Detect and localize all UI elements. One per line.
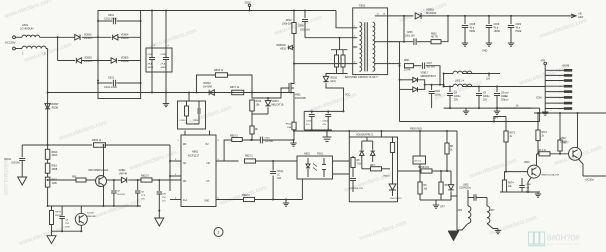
svg-text:L806: L806 — [457, 210, 463, 212]
svg-text:R809 1k: R809 1k — [92, 139, 102, 142]
svg-text:1kV: 1kV — [162, 200, 166, 202]
svg-text:CD11-1/400: CD11-1/400 — [104, 86, 117, 89]
svg-text:R+1: R+1 — [183, 200, 188, 202]
svg-text:GND: GND — [482, 50, 488, 53]
svg-text:C813: C813 — [306, 121, 312, 123]
svg-text:L807: L807 — [490, 210, 496, 212]
svg-text:1000u: 1000u — [483, 96, 490, 98]
svg-text:VD813: VD813 — [272, 101, 280, 103]
svg-text:R8?B: R8?B — [55, 212, 61, 214]
svg-text:V804 MMBT2222A: V804 MMBT2222A — [88, 169, 109, 172]
svg-text:R871: R871 — [542, 132, 548, 134]
svg-text:GND: GND — [204, 201, 209, 203]
svg-text:COM: COM — [536, 98, 541, 100]
svg-text:100u 2kV: 100u 2kV — [300, 29, 311, 32]
svg-text:P62E: P62E — [516, 30, 522, 33]
svg-text:elecfans.com: elecfans.com — [2, 160, 8, 195]
svg-text:100/1kV: 100/1kV — [11, 161, 20, 164]
svg-text:N802: N802 — [304, 153, 310, 156]
svg-text:2R0A: 2R0A — [52, 154, 58, 157]
svg-text:MMB10C: MMB10C — [276, 45, 286, 47]
svg-text:D4NC60B: D4NC60B — [295, 97, 306, 100]
svg-text:1R0 PLATO: 1R0 PLATO — [390, 197, 402, 200]
svg-text:400W: 400W — [148, 67, 155, 69]
svg-text:+5VSB: +5VSB — [562, 65, 570, 68]
svg-text:HE10: HE10 — [280, 48, 286, 50]
svg-text:114B: 114B — [52, 183, 58, 185]
svg-text:160W: 160W — [494, 30, 501, 33]
svg-text:AC220V: AC220V — [5, 41, 16, 45]
svg-text:N801: N801 — [192, 150, 199, 154]
svg-text:LG-800UH: LG-800UH — [20, 27, 33, 31]
svg-text:1n2 1kV: 1n2 1kV — [427, 66, 436, 68]
svg-text:AE 7R: AE 7R — [431, 36, 438, 39]
svg-text:BAOSHEN CROWN 74-NX-T: BAOSHEN CROWN 74-NX-T — [345, 76, 378, 79]
svg-text:VD8 BAXPRL71: VD8 BAXPRL71 — [356, 133, 374, 136]
svg-text:R8 4.7k: R8 4.7k — [538, 150, 547, 152]
svg-text:R874: R874 — [508, 183, 514, 185]
svg-text:NCP1217: NCP1217 — [188, 153, 200, 157]
svg-text:2: 2 — [218, 231, 220, 235]
svg-text:C814: C814 — [323, 121, 329, 123]
svg-text:25V: 25V — [483, 99, 488, 101]
svg-text:RD: RD — [183, 181, 187, 183]
svg-text:R821: R821 — [404, 60, 410, 62]
svg-text:400W: 400W — [161, 67, 168, 69]
svg-text:C805: C805 — [298, 25, 304, 28]
svg-text:100u 16V: 100u 16V — [405, 35, 415, 37]
svg-text:47R: 47R — [541, 60, 546, 63]
svg-text:1000u: 1000u — [435, 94, 442, 96]
svg-text:PS8.1: PS8.1 — [317, 153, 324, 156]
svg-text:C8 1n2: C8 1n2 — [414, 161, 422, 163]
svg-text:13007: 13007 — [560, 140, 567, 143]
svg-text:C8(G): C8(G) — [277, 171, 283, 173]
svg-text:C808: C808 — [161, 54, 167, 56]
svg-text:R814: R814 — [286, 124, 292, 126]
svg-text:C20/4ODm: C20/4ODm — [459, 187, 471, 190]
svg-text:MMB10B: MMB10B — [87, 216, 97, 218]
svg-text:C812: C812 — [108, 77, 115, 80]
svg-text:10A: 10A — [287, 126, 291, 129]
svg-text:22 HA: 22 HA — [404, 69, 411, 72]
svg-text:R801: R801 — [52, 166, 58, 168]
svg-text:GPT: GPT — [440, 207, 445, 209]
svg-text:6#0H?0#: 6#0H?0# — [547, 234, 580, 243]
svg-text:2F-A: 2F-A — [148, 63, 153, 66]
svg-text:R872: R872 — [510, 133, 516, 135]
svg-text:2F-A: 2F-A — [161, 63, 166, 66]
svg-text:C817: C817 — [427, 63, 433, 65]
svg-text:CD11-1/400: CD11-1/400 — [104, 17, 117, 20]
svg-text:100k-2W: 100k-2W — [282, 22, 292, 25]
svg-text:R820: R820 — [431, 33, 437, 35]
svg-text:R815 5: R815 5 — [141, 175, 149, 178]
svg-text:VCC: VCC — [345, 94, 350, 97]
svg-text:12A: 12A — [486, 78, 491, 81]
svg-text:MBR30H45CT: MBR30H45CT — [421, 75, 437, 78]
svg-text:C815: C815 — [265, 138, 271, 140]
svg-text:10A: 10A — [277, 177, 282, 180]
svg-text:TLC807: TLC807 — [87, 213, 96, 215]
svg-text:w w w . e l e c f a n s . c o: w w w . e l e c f a n s . c o m — [547, 242, 579, 246]
svg-text:C816: C816 — [193, 120, 199, 122]
svg-text:R80A: R80A — [52, 151, 58, 154]
svg-text:VD816: VD816 — [426, 8, 434, 12]
svg-text:ADJ: ADJ — [578, 15, 584, 19]
svg-text:R8 5: R8 5 — [370, 165, 376, 167]
svg-text:25V: 25V — [454, 99, 459, 101]
svg-text:R819 2: R819 2 — [230, 135, 238, 138]
svg-text:1R0B: 1R0B — [52, 169, 58, 171]
svg-text:GM2: GM2 — [504, 93, 510, 95]
svg-text:IC810: IC810 — [180, 120, 187, 122]
svg-text:320V: 320V — [245, 1, 251, 5]
svg-text:+UC30w: +UC30w — [585, 179, 595, 182]
svg-text:1N4148: 1N4148 — [203, 86, 212, 89]
svg-text:C820: C820 — [435, 91, 441, 93]
svg-text:10V: 10V — [141, 198, 145, 200]
svg-text:LM431: LM431 — [383, 176, 390, 178]
svg-text:1A: 1A — [516, 104, 519, 107]
svg-text:1000u: 1000u — [454, 96, 461, 98]
svg-text:C830: C830 — [526, 184, 532, 186]
svg-text:R817 11: R817 11 — [230, 86, 240, 89]
svg-text:154.5/B: 154.5/B — [117, 194, 125, 196]
svg-text:MMBT2222A-1TB: MMBT2222A-1TB — [542, 174, 560, 177]
svg-text:L805 L-4: L805 L-4 — [455, 81, 465, 83]
svg-text:RD: RD — [183, 144, 187, 146]
svg-text:T802: T802 — [359, 4, 366, 8]
svg-text:V803: V803 — [524, 162, 530, 164]
svg-text:820E: 820E — [470, 30, 476, 33]
svg-text:-R20B: -R20B — [51, 106, 58, 109]
svg-text:R818 11: R818 11 — [214, 69, 224, 72]
svg-text:C807: C807 — [148, 54, 154, 56]
svg-text:C8 TR-A 12W: C8 TR-A 12W — [350, 187, 364, 190]
svg-text:(14/1): (14/1) — [330, 81, 336, 83]
svg-text:R822 2: R822 2 — [242, 194, 250, 197]
svg-text:MBLC4T1B: MBLC4T1B — [272, 104, 284, 106]
svg-text:NC: NC — [183, 163, 187, 165]
svg-text:C806: C806 — [407, 32, 413, 34]
svg-text:R823 2: R823 2 — [245, 155, 253, 158]
svg-text:NRNB 10k: NRNB 10k — [418, 167, 430, 169]
svg-text:VD810: VD810 — [330, 78, 338, 80]
svg-text:MUR460: MUR460 — [426, 11, 437, 15]
svg-text:1N4748: 1N4748 — [119, 172, 128, 175]
svg-text:8U: 8U — [206, 144, 209, 146]
svg-text:1C: 1C — [277, 174, 280, 176]
svg-text:15V: 15V — [504, 96, 508, 98]
